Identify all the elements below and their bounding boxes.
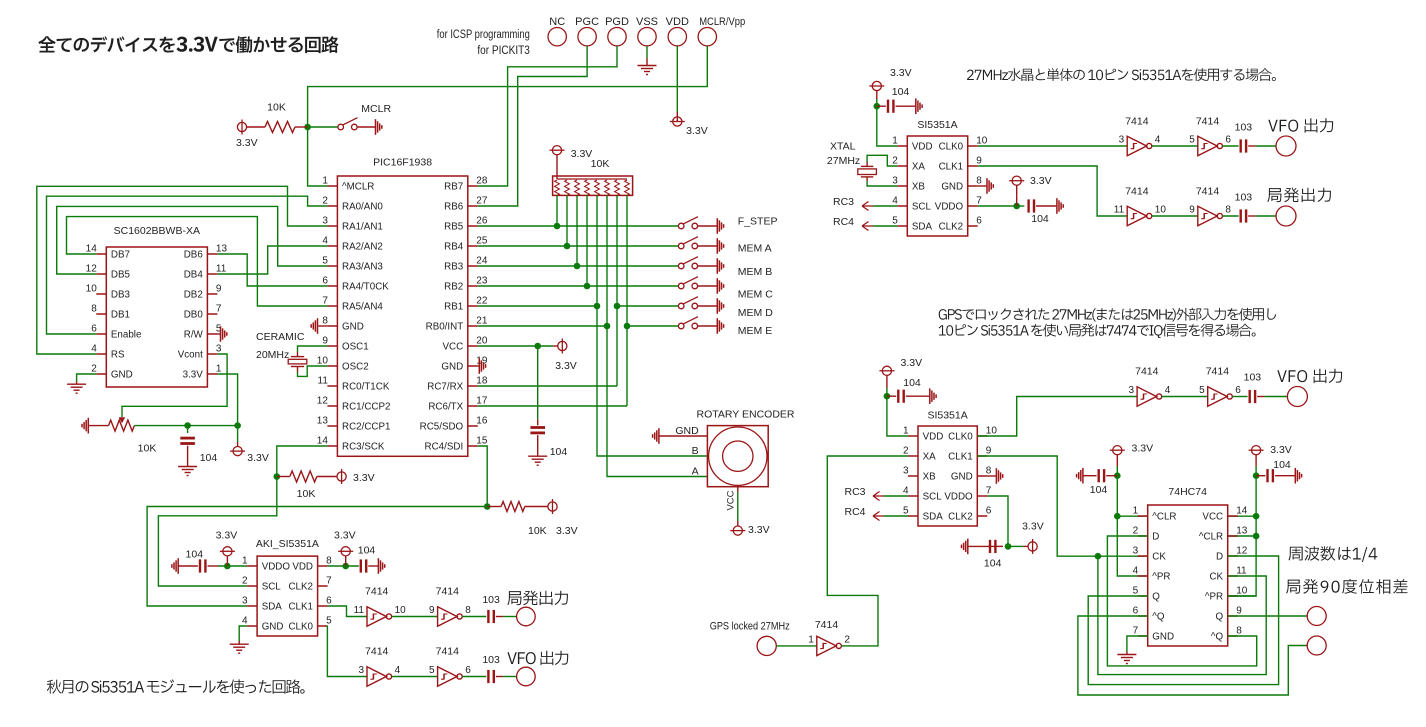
capacitor 103 (VFO 出力 coupling) (488, 670, 493, 683)
IC U4 SI5351A pin stubs (897, 146, 977, 226)
svg-text:7414: 7414 (1196, 116, 1220, 128)
svg-text:VDDO: VDDO (944, 491, 973, 502)
svg-text:3: 3 (322, 216, 328, 227)
svg-text:RC3/SCK: RC3/SCK (342, 441, 385, 452)
IC U2 SC1602BBWB-XA pin numbers (86, 244, 228, 375)
wire RB5 to F_STEP switch (478, 225, 679, 227)
ground (U5 VDD bypass) (930, 388, 936, 404)
wire GPS input to U5 XA (827, 456, 908, 646)
svg-text:9: 9 (986, 446, 992, 457)
svg-text:RS: RS (111, 349, 125, 360)
junction leg1/RB5 (554, 223, 561, 230)
svg-text:SDA: SDA (912, 221, 933, 232)
svg-text:26: 26 (476, 216, 488, 227)
wire RB2 to MEM C switch (478, 285, 679, 287)
svg-text:VDD: VDD (666, 16, 689, 28)
svg-text:^CLR: ^CLR (1199, 531, 1223, 542)
ground (U4 GND) (978, 185, 987, 187)
svg-text:CLK0: CLK0 (288, 621, 313, 632)
IC U6 74HC74 pin numbers (1133, 506, 1248, 637)
inverter 7414 (VFO 出力 first) (1127, 136, 1152, 155)
capacitor 103 (局発出力 coupling) (1241, 209, 1246, 222)
svg-text:6: 6 (976, 216, 982, 227)
svg-text:XB: XB (912, 181, 926, 192)
svg-text:3.3V: 3.3V (555, 360, 577, 372)
wire switch to ground (357, 126, 375, 128)
IC U2 SC1602BBWB-XA pin stubs (96, 254, 217, 374)
connector 局発出力 output (1276, 206, 1296, 226)
wire PIC RC3/SCK to AKI SCL (158, 446, 327, 586)
IC U1 PIC16F1938 pin numbers (317, 176, 488, 447)
capacitor 104 (U5 VDD bypass) (887, 395, 896, 397)
capacitor 104 (U4 VDDO bypass) (1029, 199, 1034, 212)
svg-text:MEM E: MEM E (738, 325, 772, 337)
arrow U4 SCL to RC3 (862, 202, 873, 211)
inverter 7414 (VFO 出力 first) (1137, 387, 1162, 406)
svg-text:5: 5 (326, 616, 332, 627)
wire switch MEM B to ground (698, 265, 717, 267)
svg-text:XTAL: XTAL (830, 141, 856, 153)
svg-text:7: 7 (976, 196, 982, 207)
encoder pin labels (675, 425, 699, 478)
svg-text:MEM D: MEM D (738, 307, 773, 319)
junction U4 VDDO (1013, 203, 1020, 210)
IC U4 SI5351A pin numbers (892, 136, 988, 227)
svg-text:MEM B: MEM B (738, 266, 772, 278)
svg-text:1: 1 (216, 364, 222, 375)
svg-text:7414: 7414 (436, 586, 460, 598)
svg-text:VDDO: VDDO (262, 561, 291, 572)
svg-text:RB4: RB4 (444, 241, 464, 252)
svg-text:2: 2 (322, 196, 328, 207)
power 3.3V (74HC74 right) (1249, 446, 1264, 455)
svg-text:DB6: DB6 (184, 249, 204, 260)
wire LCD RS to PIC RA1 (37, 186, 328, 354)
ground (MCLR switch) (376, 119, 382, 135)
svg-text:for ICSP programming: for ICSP programming (437, 29, 530, 41)
svg-text:MCLR/Vpp: MCLR/Vpp (699, 16, 745, 28)
svg-text:5: 5 (322, 256, 328, 267)
power 3.3V (U4 VDDO) (1016, 195, 1018, 206)
svg-text:RA0/AN0: RA0/AN0 (342, 201, 383, 212)
svg-text:4: 4 (892, 196, 898, 207)
wire to inverter chain (327, 626, 367, 677)
wire LCD GND to ground (77, 374, 97, 382)
svg-text:RB2: RB2 (444, 281, 463, 292)
IC U2 SC1602BBWB-XA pin names (111, 249, 204, 380)
svg-text:21: 21 (476, 316, 488, 327)
svg-text:14: 14 (86, 244, 98, 255)
power 3.3V (resistor network) (550, 146, 565, 155)
wire to capacitor 103 (1222, 145, 1238, 147)
svg-text:7: 7 (986, 486, 992, 497)
switch MCLR (338, 118, 358, 130)
svg-text:RC3: RC3 (833, 196, 854, 208)
wire LCD DB7 to PIC RA5 (67, 217, 328, 306)
svg-text:1: 1 (322, 176, 328, 187)
svg-text:3.3V: 3.3V (247, 452, 269, 464)
wire ^CLR pin13 branch (1228, 535, 1256, 537)
svg-text:103: 103 (482, 594, 500, 606)
connector pad VSS (638, 28, 656, 46)
ground (potentiometer) (82, 418, 88, 434)
wire VCC to capacitor (537, 346, 539, 419)
svg-text:OSC1: OSC1 (342, 341, 369, 352)
inverter 7414 (局発出力 second) (1198, 206, 1223, 225)
svg-text:6: 6 (1225, 135, 1231, 146)
power 3.3V (AKI VDDO) (226, 556, 228, 566)
svg-text:4: 4 (242, 616, 248, 627)
svg-text:23: 23 (476, 276, 488, 287)
ground (PIC pin19 GND) (478, 365, 479, 367)
wire LCD 3.3V pin to 3.3V rail (217, 374, 237, 426)
svg-text:104: 104 (1031, 213, 1049, 225)
svg-text:103: 103 (1244, 372, 1262, 384)
ground (MEM C) (717, 278, 723, 294)
junction CK net (1095, 553, 1102, 560)
svg-text:11: 11 (354, 605, 365, 616)
label VFO 出力 (1268, 118, 1333, 132)
svg-text:GND: GND (111, 369, 133, 380)
svg-text:DB5: DB5 (111, 269, 131, 280)
svg-text:Q: Q (1215, 611, 1223, 622)
IC U5 SI5351A pin stubs (908, 436, 987, 516)
wire 74HC74 ^Q6 to output connector (1078, 616, 1307, 695)
svg-text:3.3V: 3.3V (1270, 444, 1292, 456)
svg-text:VCC: VCC (443, 341, 464, 352)
power 3.3V (MCLR pull-up) (237, 120, 246, 135)
svg-text:7414: 7414 (1206, 366, 1230, 378)
svg-text:6: 6 (1133, 606, 1139, 617)
junction leg3/RB3 (574, 263, 581, 270)
svg-text:GND: GND (1152, 631, 1174, 642)
svg-text:10: 10 (976, 136, 988, 147)
svg-text:Vcont: Vcont (178, 349, 203, 360)
inverter 7414 (局発出力 first) (367, 607, 392, 626)
junction pot/3.3V (234, 422, 241, 429)
svg-text:SDA: SDA (923, 511, 944, 522)
svg-text:7414: 7414 (815, 619, 839, 631)
power 3.3V (74HC74 left) (1110, 446, 1125, 455)
svg-text:104: 104 (1273, 459, 1291, 471)
wire pull-up to switch (308, 126, 338, 128)
wire to capacitor 103 (462, 676, 486, 678)
svg-text:CLK1: CLK1 (939, 161, 964, 172)
svg-text:R/W: R/W (184, 329, 204, 340)
svg-text:A: A (692, 466, 699, 478)
svg-text:22: 22 (476, 296, 488, 307)
svg-text:GND: GND (441, 361, 463, 372)
svg-text:3.3V: 3.3V (353, 472, 375, 484)
text: 秋月の Si5351A モジュールを使った回路。 (47, 679, 305, 693)
svg-text:^MCLR: ^MCLR (342, 181, 374, 192)
svg-text:ROTARY ENCODER: ROTARY ENCODER (696, 409, 794, 421)
svg-text:RC3: RC3 (844, 486, 865, 498)
svg-text:RC6/TX: RC6/TX (428, 401, 463, 412)
svg-text:3.3V: 3.3V (901, 357, 923, 369)
label VFO 出力 (507, 651, 568, 665)
wire to inverter chain (978, 145, 1127, 147)
wire MCLR/Vpp to PIC pin1 net (308, 46, 708, 186)
svg-text:104: 104 (358, 545, 376, 557)
svg-text:5: 5 (1199, 385, 1205, 396)
svg-text:RB0/INT: RB0/INT (426, 321, 464, 332)
svg-text:20MHz: 20MHz (256, 349, 289, 361)
svg-text:10: 10 (1236, 586, 1248, 597)
svg-text:RC0/T1CK: RC0/T1CK (342, 381, 390, 392)
svg-text:RA1/AN1: RA1/AN1 (342, 221, 383, 232)
svg-text:RC4: RC4 (833, 216, 854, 228)
svg-text:17: 17 (476, 396, 488, 407)
IC U1 PIC16F1938 box (337, 176, 467, 456)
wire 74HC74 ^PR pin10 to VCC rail (1228, 595, 1256, 597)
wire pull-up leg2 (566, 195, 568, 246)
wire LCD DB5 to PIC RA3 (57, 206, 328, 274)
svg-text:3: 3 (1129, 385, 1135, 396)
svg-text:RC4: RC4 (844, 506, 865, 518)
svg-text:2: 2 (844, 634, 850, 645)
svg-text:6: 6 (322, 276, 328, 287)
ground (U4 VDD bypass) (916, 98, 922, 114)
svg-text:5: 5 (1189, 135, 1195, 146)
connector pad MCLR/Vpp (698, 28, 716, 46)
svg-text:8: 8 (465, 605, 471, 616)
capacitor 104 (U4 VDD bypass) (877, 105, 886, 107)
svg-text:CLK2: CLK2 (948, 511, 973, 522)
svg-text:7: 7 (322, 296, 328, 307)
svg-text:VDD: VDD (292, 561, 313, 572)
junction pot/cap (184, 422, 191, 429)
svg-text:7414: 7414 (436, 646, 460, 658)
svg-text:9: 9 (1189, 205, 1195, 216)
svg-text:GND: GND (951, 471, 973, 482)
svg-text:6: 6 (1235, 385, 1241, 396)
svg-text:^Q: ^Q (1152, 611, 1165, 622)
junction left bypass (1114, 472, 1121, 479)
svg-text:DB3: DB3 (111, 289, 131, 300)
crystal X1 27MHz (866, 162, 868, 166)
IC U5 SI5351A pin numbers (903, 426, 997, 517)
switch MEM E (678, 317, 698, 329)
svg-text:RA3/AN3: RA3/AN3 (342, 261, 383, 272)
svg-text:DB4: DB4 (184, 269, 204, 280)
wire to inverter chain (328, 606, 367, 617)
ground (74HC74 GND) (1126, 652, 1128, 655)
svg-text:1: 1 (242, 556, 248, 567)
svg-text:AKI_SI5351A: AKI_SI5351A (256, 538, 319, 550)
svg-text:MEM A: MEM A (738, 243, 772, 255)
svg-text:103: 103 (482, 654, 500, 666)
svg-text:RC2/CCP1: RC2/CCP1 (342, 421, 390, 432)
wire U4 VDDO net (978, 205, 1012, 207)
svg-text:10K: 10K (267, 102, 286, 114)
svg-text:4: 4 (903, 486, 909, 497)
connector Q output (1307, 636, 1326, 655)
svg-text:3: 3 (358, 665, 364, 676)
svg-text:VDD: VDD (912, 141, 933, 152)
text: 10ピン Si5351A を使い局発は7474でIQ信号を得る場合。 (939, 324, 1256, 338)
wire AKI GND to ground (239, 626, 247, 641)
wire pull-up leg1 (556, 195, 558, 226)
svg-text:CK: CK (1152, 551, 1166, 562)
power 3.3V (SDA pull-up) (548, 499, 557, 514)
wire VSS to ground (646, 46, 648, 58)
svg-text:VCC: VCC (726, 490, 737, 510)
svg-text:RA2/AN2: RA2/AN2 (342, 241, 383, 252)
wire LCD Vcont to potentiometer wiper (122, 354, 227, 417)
svg-text:^CLR: ^CLR (1152, 511, 1176, 522)
IC U6 74HC74 pin names (1152, 511, 1223, 642)
power 3.3V (VDD) (676, 112, 678, 122)
junction U5 VDDO (1005, 543, 1012, 550)
svg-text:XB: XB (923, 471, 937, 482)
svg-text:7: 7 (216, 304, 222, 315)
svg-text:10: 10 (86, 284, 98, 295)
wire switch MEM C to ground (698, 285, 717, 287)
wire PGD to PIC RB7 (478, 46, 617, 186)
svg-text:^PR: ^PR (1205, 591, 1223, 602)
wire between inverters (1162, 396, 1208, 398)
svg-text:2: 2 (242, 576, 248, 587)
wire U4 XA to crystal (867, 155, 897, 166)
wire U5 CLK1 to 74HC74 CK (977, 456, 1147, 556)
svg-text:NC: NC (549, 16, 565, 28)
junction leg4/RB2 (584, 283, 591, 290)
svg-text:3.3V: 3.3V (183, 369, 204, 380)
svg-text:5: 5 (903, 506, 909, 517)
label 局発出力 (1267, 188, 1331, 203)
wire cap to output connector (1248, 215, 1255, 217)
svg-text:10K: 10K (591, 158, 610, 170)
svg-text:3: 3 (903, 466, 909, 477)
wire RB0/INT to encoder A (leg6) (478, 325, 607, 327)
svg-text:CLK1: CLK1 (948, 451, 973, 462)
svg-text:SCL: SCL (923, 491, 943, 502)
svg-text:3.3V: 3.3V (216, 530, 238, 542)
svg-text:GND: GND (262, 621, 284, 632)
svg-text:SCL: SCL (262, 581, 282, 592)
svg-text:7414: 7414 (1125, 116, 1149, 128)
junction AKI VDD (342, 563, 349, 570)
svg-text:B: B (692, 445, 699, 457)
svg-text:DB1: DB1 (111, 309, 130, 320)
svg-text:15: 15 (476, 436, 488, 447)
svg-text:3.3V: 3.3V (571, 148, 593, 160)
wire pull-up leg4 (586, 195, 588, 286)
ground (MEM D) (717, 298, 723, 314)
inverter 7414 (GPS buffer) (817, 636, 842, 655)
svg-text:3.3V: 3.3V (334, 530, 356, 542)
svg-text:104: 104 (892, 86, 910, 98)
connector VFO 出力 output (1276, 136, 1296, 156)
svg-text:3: 3 (1133, 546, 1139, 557)
inverter 7414 (VFO 出力 second) (1198, 136, 1223, 155)
capacitor 104 (U5 VDDO bypass) (988, 545, 1003, 547)
svg-text:9: 9 (976, 156, 982, 167)
IC U6 74HC74 pin stubs (1138, 516, 1238, 636)
svg-text:7414: 7414 (365, 646, 389, 658)
wire VDD to 3.3V (676, 46, 678, 112)
svg-text:14: 14 (1236, 506, 1248, 517)
IC U5 SI5351A pin names (923, 431, 974, 522)
wire GPS connector to inverter (776, 645, 817, 647)
ground (F_STEP) (717, 218, 723, 234)
capacitor 103 (局発出力 coupling) (488, 610, 493, 623)
svg-text:RC4/SDI: RC4/SDI (425, 441, 464, 452)
switch MEM C (678, 277, 698, 289)
svg-text:104: 104 (984, 558, 1002, 570)
connector 局発出力 output (517, 607, 536, 626)
svg-text:3.3V: 3.3V (1030, 175, 1052, 187)
svg-text:13: 13 (216, 244, 228, 255)
label XTAL 27MHz (827, 141, 860, 168)
svg-text:VSS: VSS (636, 16, 658, 28)
svg-text:MCLR: MCLR (361, 103, 391, 115)
svg-text:2: 2 (903, 446, 909, 457)
wire 74HC74 Q9 to output connector (1228, 615, 1308, 617)
wire 3.3V to U5 VDD (887, 388, 908, 436)
svg-text:3: 3 (216, 344, 222, 355)
svg-text:13: 13 (317, 416, 329, 427)
svg-text:RB1: RB1 (444, 301, 463, 312)
junction SCL pull-up (274, 473, 281, 480)
power 3.3V (LCD) (237, 426, 239, 442)
svg-text:104: 104 (1090, 484, 1108, 496)
wire cap to output connector (496, 676, 503, 678)
svg-text:2: 2 (1133, 526, 1139, 537)
wire cap to output connector (1257, 396, 1264, 398)
wire U5 VDDO to bypass (987, 496, 1008, 546)
svg-text:16: 16 (476, 416, 488, 427)
inverter 7414 (局発出力 second) (438, 607, 463, 626)
power 3.3V (SCL pull-up) (337, 469, 346, 484)
capacitor 103 (VFO 出力 coupling) (1241, 139, 1246, 152)
junction SDA pull-up (484, 503, 491, 510)
resonator CERAMIC 20MHz (297, 352, 299, 357)
svg-text:1: 1 (903, 426, 909, 437)
ground (LCD GND) (76, 382, 78, 385)
arrow U5 SDA to RC4 (873, 512, 884, 521)
wire AKI VDD to cap (328, 565, 359, 567)
svg-text:24: 24 (476, 256, 488, 267)
svg-text:RA5/AN4: RA5/AN4 (342, 301, 383, 312)
junction AKI VDDO (224, 563, 231, 570)
svg-text:6: 6 (986, 506, 992, 517)
svg-text:8: 8 (1225, 205, 1231, 216)
wire cap to output connector (496, 616, 503, 618)
svg-text:10K: 10K (138, 443, 157, 455)
junction 74HC74 pin1 (1114, 513, 1121, 520)
svg-text:10: 10 (317, 356, 329, 367)
svg-text:6: 6 (465, 665, 471, 676)
svg-text:27: 27 (476, 196, 488, 207)
wire LCD Enable to PIC RA0 (47, 196, 328, 334)
wire crystal to U4 XB (867, 181, 897, 186)
junction right bypass (1253, 472, 1260, 479)
wire VCC to 3.3V (478, 345, 553, 347)
ground (AKI VDDO bypass) (172, 558, 178, 574)
svg-text:3.3V: 3.3V (890, 67, 912, 79)
svg-text:10: 10 (986, 426, 998, 437)
svg-text:11: 11 (318, 376, 329, 387)
svg-text:RB3: RB3 (444, 261, 464, 272)
junction leg2/RB4 (564, 243, 571, 250)
wire 74HC74 GND to ground (1127, 636, 1148, 652)
svg-text:F_STEP: F_STEP (738, 216, 778, 228)
svg-text:3.3V: 3.3V (236, 137, 258, 149)
svg-text:for PICKIT3: for PICKIT3 (477, 45, 530, 57)
ground (U5 VDDO bypass) (962, 539, 968, 555)
